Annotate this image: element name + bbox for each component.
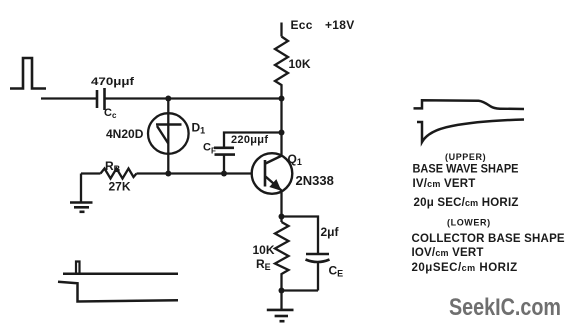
- svg-text:(LOWER): (LOWER): [447, 218, 491, 228]
- scope trace lower right (collector waveform): [417, 120, 524, 143]
- wire collector rail down: [280, 99, 282, 156]
- svg-text:CF: CF: [203, 142, 216, 156]
- svg-text:2N338: 2N338: [296, 173, 334, 188]
- node diode bottom junction: [165, 171, 171, 177]
- svg-text:10K: 10K: [253, 243, 275, 257]
- svg-text:RE: RE: [256, 257, 271, 272]
- node emitter junction: [279, 214, 285, 220]
- svg-text:20μ SEC/cm HORIZ: 20μ SEC/cm HORIZ: [414, 197, 519, 209]
- svg-text:CE: CE: [329, 264, 344, 279]
- ground (emitter): [267, 291, 294, 322]
- svg-text:Q1: Q1: [288, 152, 302, 167]
- resistor RE 10K: [275, 222, 289, 291]
- node CF bottom junction: [221, 171, 227, 177]
- svg-text:IV/cm VERT: IV/cm VERT: [413, 178, 476, 190]
- svg-text:D1: D1: [192, 121, 206, 136]
- svg-text:SeekIC.com: SeekIC.com: [449, 294, 561, 321]
- svg-text:(UPPER): (UPPER): [445, 152, 486, 162]
- Ecc supply rail: [280, 23, 282, 37]
- svg-text:+18V: +18V: [325, 18, 355, 32]
- resistor RB 27K: [101, 169, 137, 179]
- svg-text:27K: 27K: [109, 180, 131, 194]
- svg-text:4N20D: 4N20D: [106, 127, 144, 141]
- ground (RB): [70, 174, 93, 212]
- capacitor CF branch: [214, 133, 282, 174]
- svg-text:BASE WAVE SHAPE: BASE WAVE SHAPE: [413, 164, 519, 176]
- transistor Q1: [252, 153, 293, 194]
- node CF top junction: [279, 130, 285, 136]
- svg-text:RB: RB: [105, 159, 121, 174]
- node collector rail / input wire: [279, 96, 285, 102]
- svg-text:10K: 10K: [289, 57, 311, 71]
- wire RB to base: [137, 172, 253, 174]
- svg-text:IOV/cm VERT: IOV/cm VERT: [412, 247, 484, 259]
- wire base line: [81, 172, 101, 174]
- input pulse symbol: [10, 58, 46, 89]
- svg-text:20μSEC/cm HORIZ: 20μSEC/cm HORIZ: [412, 262, 518, 274]
- scope trace lower-left upper (narrow pulse): [63, 262, 178, 274]
- svg-text:Ecc: Ecc: [291, 18, 313, 32]
- capacitor CE branch: [282, 217, 330, 291]
- svg-text:2μf: 2μf: [321, 225, 340, 239]
- scope trace upper right (base waveform): [414, 100, 525, 109]
- capacitor Cc: [97, 88, 105, 110]
- node emitter bottom junction: [279, 288, 285, 294]
- wire Cc to collector rail: [106, 97, 283, 99]
- svg-text:COLLECTOR BASE SHAPE: COLLECTOR BASE SHAPE: [412, 233, 565, 245]
- wire input to Cc: [41, 97, 96, 99]
- svg-text:470μμf: 470μμf: [91, 76, 134, 88]
- svg-text:220μμf: 220μμf: [231, 134, 268, 146]
- node input/diode junction: [165, 96, 171, 102]
- wire emitter down: [280, 191, 282, 223]
- resistor 10K (collector): [275, 37, 288, 99]
- scope trace lower-left lower (step): [58, 282, 178, 302]
- svg-text:Cc: Cc: [104, 107, 117, 120]
- diode D1: [148, 99, 189, 174]
